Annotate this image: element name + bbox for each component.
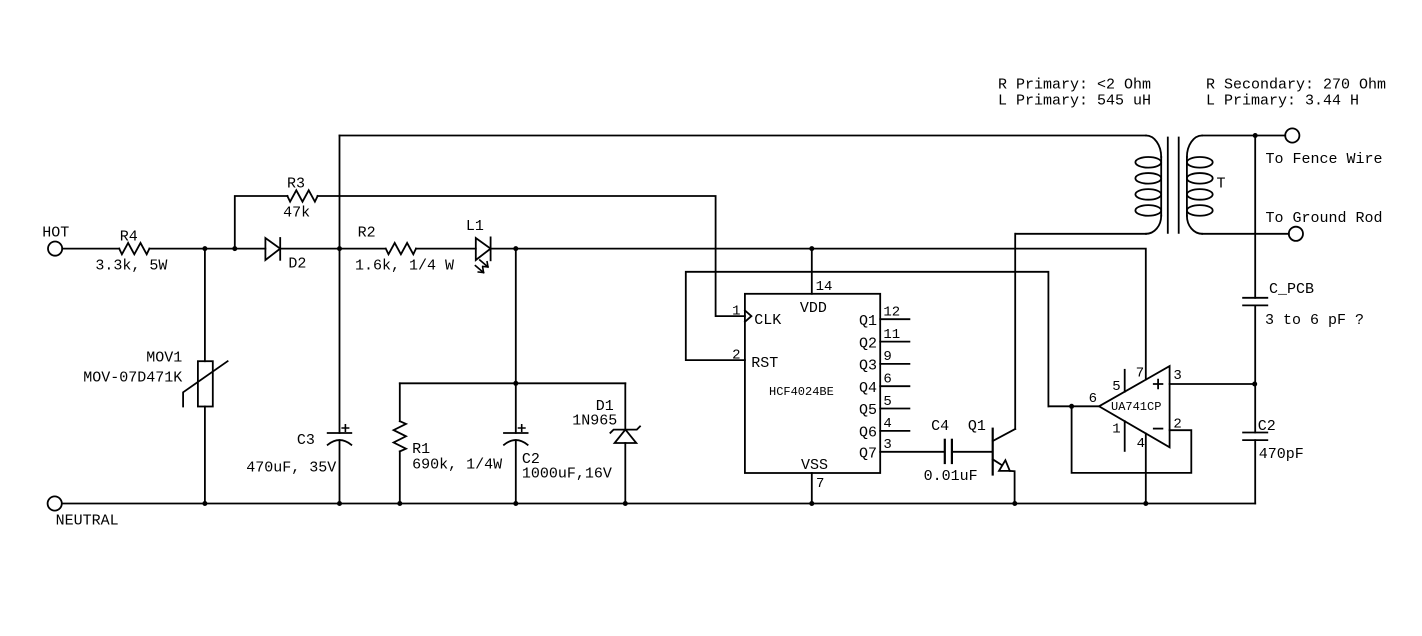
LED L1 bbox=[476, 238, 491, 260]
svg-text:R2: R2 bbox=[358, 225, 376, 242]
wire MOV top lead bbox=[204, 249, 206, 362]
wire D1 bottom lead bbox=[624, 443, 626, 504]
transformer T primary winding bbox=[1135, 157, 1161, 168]
capacitor C2 bbox=[504, 432, 528, 434]
wire HOT to R4 bbox=[62, 248, 119, 250]
terminal ground rod bbox=[1289, 227, 1303, 241]
svg-text:9: 9 bbox=[883, 349, 891, 365]
wire R4 to D2 bbox=[149, 248, 265, 250]
wire fence to C_PCB bbox=[1254, 136, 1256, 298]
svg-text:To Fence Wire: To Fence Wire bbox=[1266, 151, 1383, 168]
svg-text:14: 14 bbox=[816, 279, 833, 295]
node L1 junction bbox=[513, 246, 518, 251]
node neutral C3 bbox=[337, 501, 342, 506]
capacitor C_PCB bbox=[1243, 297, 1267, 299]
svg-text:Q5: Q5 bbox=[859, 402, 877, 419]
svg-text:1N965: 1N965 bbox=[572, 413, 617, 430]
svg-text:RST: RST bbox=[751, 355, 778, 372]
svg-text:47k: 47k bbox=[283, 205, 310, 222]
pin 1 stub bbox=[1124, 421, 1126, 451]
svg-text:470uF, 35V: 470uF, 35V bbox=[246, 460, 336, 477]
wire L1 to opamp pin7 bbox=[491, 249, 1146, 380]
svg-text:3 to 6 pF ?: 3 to 6 pF ? bbox=[1265, 312, 1364, 329]
wire Q1 collector bbox=[1014, 234, 1016, 429]
wire VSS bbox=[811, 473, 813, 504]
node neutral MOV bbox=[202, 501, 207, 506]
svg-text:2: 2 bbox=[732, 348, 740, 364]
svg-text:12: 12 bbox=[883, 305, 900, 321]
svg-text:VDD: VDD bbox=[800, 300, 827, 317]
IC U1 clock symbol bbox=[745, 310, 752, 321]
svg-text:L Primary: 3.44 H: L Primary: 3.44 H bbox=[1206, 93, 1359, 110]
node feedback junction bbox=[1069, 404, 1074, 409]
wire D2 to R2 bbox=[280, 248, 385, 250]
transformer T primary bottom arc bbox=[1146, 216, 1161, 234]
terminal fence wire bbox=[1285, 128, 1299, 142]
node MOV junction bbox=[202, 246, 207, 251]
svg-text:HCF4024BE: HCF4024BE bbox=[769, 385, 834, 399]
wire opamp pin 3 bbox=[1170, 383, 1255, 385]
transformer T secondary winding bbox=[1187, 157, 1213, 168]
svg-text:R Secondary: 270 Ohm: R Secondary: 270 Ohm bbox=[1206, 77, 1386, 94]
svg-text:7: 7 bbox=[1136, 365, 1144, 381]
svg-text:R4: R4 bbox=[120, 229, 138, 246]
wire R3 to CLK bbox=[318, 196, 745, 316]
svg-text:MOV-07D471K: MOV-07D471K bbox=[83, 370, 182, 387]
node VDD junction bbox=[809, 246, 814, 251]
pin Q3 stub bbox=[880, 363, 909, 365]
terminal HOT bbox=[48, 242, 62, 256]
wire C4 to Q1 base bbox=[953, 451, 993, 453]
svg-text:6: 6 bbox=[883, 372, 891, 388]
svg-text:4: 4 bbox=[883, 416, 891, 432]
svg-text:To Ground Rod: To Ground Rod bbox=[1266, 210, 1383, 227]
svg-text:Q3: Q3 bbox=[859, 358, 877, 375]
pin 5 stub bbox=[1124, 370, 1126, 392]
wire opamp pin 4 bbox=[1145, 434, 1147, 504]
svg-text:Q1: Q1 bbox=[859, 313, 877, 330]
node pin4 junction bbox=[1143, 501, 1148, 506]
node VSS junction bbox=[809, 501, 814, 506]
transformer T secondary top arc bbox=[1187, 136, 1202, 158]
wire neutral rail bbox=[62, 503, 1255, 505]
wire V+ top rail bbox=[340, 135, 1147, 137]
wire C3 to neutral bbox=[339, 440, 341, 503]
svg-text:CLK: CLK bbox=[754, 312, 781, 329]
varistor MOV1 bbox=[198, 361, 213, 406]
pin Q2 stub bbox=[880, 341, 909, 343]
pin Q1 stub bbox=[880, 318, 909, 320]
wire secondary top bbox=[1202, 135, 1285, 137]
svg-text:5: 5 bbox=[883, 394, 891, 410]
svg-text:1.6k, 1/4 W: 1.6k, 1/4 W bbox=[355, 258, 454, 275]
svg-text:C3: C3 bbox=[297, 432, 315, 449]
svg-text:R3: R3 bbox=[287, 176, 305, 193]
wire opamp output bbox=[1048, 405, 1099, 407]
transformer T secondary spine bbox=[1186, 157, 1188, 216]
node R3 junction bbox=[232, 246, 237, 251]
terminal NEUTRAL bbox=[48, 496, 62, 510]
svg-text:MOV1: MOV1 bbox=[146, 350, 182, 367]
node pin3 junction bbox=[1252, 382, 1257, 387]
wire RST to opamp output bbox=[686, 272, 1049, 407]
svg-text:470pF: 470pF bbox=[1259, 446, 1304, 463]
node neutral D1 bbox=[623, 501, 628, 506]
transformer T primary spine bbox=[1160, 157, 1162, 216]
svg-text:T: T bbox=[1217, 176, 1226, 193]
wire L1 node drop bbox=[515, 249, 517, 433]
svg-text:4: 4 bbox=[1137, 436, 1145, 452]
svg-text:L1: L1 bbox=[466, 218, 484, 235]
pin Q6 stub bbox=[880, 430, 909, 432]
svg-text:HOT: HOT bbox=[42, 225, 69, 242]
transformer T primary top arc bbox=[1146, 136, 1161, 158]
wire C2 to neutral bbox=[515, 440, 517, 503]
svg-text:Q4: Q4 bbox=[859, 380, 877, 397]
wire C3 drop bbox=[339, 136, 341, 434]
wire D1 top lead bbox=[624, 383, 626, 429]
svg-text:1: 1 bbox=[1112, 422, 1120, 438]
svg-text:D2: D2 bbox=[288, 256, 306, 273]
node neutral R1 bbox=[397, 501, 402, 506]
node neutral C2 bbox=[513, 501, 518, 506]
svg-text:NEUTRAL: NEUTRAL bbox=[56, 513, 119, 530]
svg-text:UA741CP: UA741CP bbox=[1111, 400, 1161, 414]
pin Q5 stub bbox=[880, 408, 909, 410]
svg-text:3: 3 bbox=[1173, 368, 1181, 384]
transformer T secondary bottom arc bbox=[1187, 216, 1202, 234]
svg-text:VSS: VSS bbox=[801, 457, 828, 474]
IC U1 box bbox=[745, 294, 880, 473]
wire R1-C2-D1 top bbox=[400, 382, 626, 384]
svg-text:5: 5 bbox=[1112, 379, 1120, 395]
transistor Q1 bbox=[992, 429, 994, 475]
svg-text:7: 7 bbox=[816, 476, 824, 492]
wire C_PCB to C2 bbox=[1254, 305, 1256, 432]
wire primary bottom bbox=[1016, 233, 1147, 235]
node C2 top junction bbox=[513, 381, 518, 386]
node C3 junction bbox=[337, 246, 342, 251]
svg-text:0.01uF: 0.01uF bbox=[924, 468, 978, 485]
resistor R2 bbox=[386, 243, 416, 254]
svg-text:R1: R1 bbox=[412, 441, 430, 458]
svg-text:L Primary: 545 uH: L Primary: 545 uH bbox=[998, 93, 1151, 110]
wire VDD bbox=[811, 249, 813, 294]
zener diode D1 bbox=[610, 426, 640, 432]
wire C2 to neutral rail bbox=[1254, 440, 1256, 503]
node fence junction bbox=[1253, 133, 1258, 138]
svg-text:3.3k, 5W: 3.3k, 5W bbox=[95, 258, 167, 275]
svg-text:R Primary: <2 Ohm: R Primary: <2 Ohm bbox=[998, 77, 1151, 94]
pin Q4 stub bbox=[880, 385, 909, 387]
op-amp U2 body bbox=[1099, 366, 1170, 447]
op-amp plus input bbox=[1154, 380, 1163, 389]
svg-text:Q2: Q2 bbox=[859, 335, 877, 352]
wire R3 left leg bbox=[235, 196, 288, 249]
svg-text:Q6: Q6 bbox=[859, 425, 877, 442]
transformer T core bbox=[1167, 138, 1169, 233]
wire secondary bottom bbox=[1202, 233, 1289, 235]
resistor R3 bbox=[287, 190, 317, 201]
capacitor C3 bbox=[328, 432, 352, 434]
wire R2 to L1 bbox=[416, 248, 476, 250]
svg-text:Q7: Q7 bbox=[859, 446, 877, 463]
svg-text:C2: C2 bbox=[1258, 418, 1276, 435]
op-amp minus input bbox=[1154, 428, 1163, 430]
svg-text:11: 11 bbox=[883, 327, 900, 343]
svg-text:690k, 1/4W: 690k, 1/4W bbox=[412, 457, 502, 474]
wire R1 bottom lead bbox=[399, 451, 401, 503]
node Q1 emitter junction bbox=[1012, 501, 1017, 506]
wire Q7 to C4 bbox=[880, 451, 944, 453]
svg-text:Q1: Q1 bbox=[968, 418, 986, 435]
wire MOV bottom lead bbox=[204, 407, 206, 504]
diode D2 bbox=[265, 238, 280, 260]
capacitor C4 bbox=[944, 440, 946, 463]
svg-text:1000uF,16V: 1000uF,16V bbox=[522, 466, 612, 483]
wire R1 top lead bbox=[399, 383, 401, 421]
capacitor C2 470pF bbox=[1243, 432, 1267, 434]
resistor R1 bbox=[394, 421, 406, 451]
svg-text:1: 1 bbox=[732, 304, 740, 320]
wire feedback loop bbox=[1072, 406, 1192, 473]
svg-text:6: 6 bbox=[1089, 391, 1097, 407]
resistor R4 bbox=[119, 243, 149, 254]
svg-text:3: 3 bbox=[883, 437, 891, 453]
svg-text:C_PCB: C_PCB bbox=[1269, 281, 1314, 298]
svg-text:C4: C4 bbox=[931, 418, 949, 435]
